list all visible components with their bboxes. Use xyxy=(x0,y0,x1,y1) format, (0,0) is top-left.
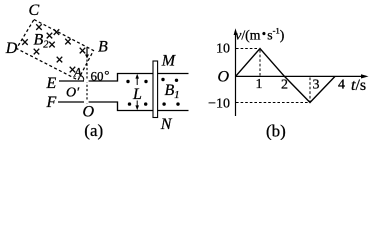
vertical dashed guide line through O xyxy=(86,60,88,105)
svg-text:2: 2 xyxy=(281,78,288,93)
svg-text:N: N xyxy=(160,116,173,133)
svg-text:E: E xyxy=(46,75,57,92)
svg-text:(b): (b) xyxy=(266,121,286,140)
svg-text:(a): (a) xyxy=(84,121,103,140)
svg-text:F: F xyxy=(46,94,57,111)
dashed guide v=-10 xyxy=(236,102,309,104)
svg-text:4: 4 xyxy=(338,78,345,93)
svg-text:O′: O′ xyxy=(66,86,80,101)
L dimension arrows xyxy=(136,77,138,85)
angle arc at A xyxy=(81,75,84,81)
svg-text:t/s: t/s xyxy=(351,77,366,94)
v axis xyxy=(235,31,237,116)
svg-text:A: A xyxy=(73,66,82,80)
svg-text:−10: −10 xyxy=(208,97,230,112)
rail F (bottom) xyxy=(58,102,189,111)
svg-text:×: × xyxy=(78,44,86,60)
svg-text:L: L xyxy=(132,86,142,103)
svg-text:×: × xyxy=(55,53,63,69)
svg-text:×: × xyxy=(48,38,56,54)
svg-text:10: 10 xyxy=(216,42,230,57)
dashed guide t=1 xyxy=(259,50,261,76)
svg-text:C: C xyxy=(29,2,40,19)
velocity arrow (downward) xyxy=(86,48,88,56)
waveform xyxy=(236,49,336,103)
svg-text:×: × xyxy=(64,35,72,51)
dashed guide v=10 xyxy=(236,48,259,50)
dashed guide t=3 xyxy=(309,78,311,102)
svg-text:1: 1 xyxy=(256,77,263,92)
t axis xyxy=(236,75,367,77)
rail E (top) xyxy=(59,74,189,82)
svg-text:M: M xyxy=(161,53,177,70)
field region B2 dashed parallelogram CDAB xyxy=(17,20,94,81)
field B1 dots xyxy=(126,78,179,106)
gaps in rails at guide line crossing xyxy=(84,80,89,83)
rod MN xyxy=(153,61,158,118)
x field symbols inside B2 region xyxy=(21,20,87,79)
svg-text:O: O xyxy=(218,69,230,86)
svg-text:O: O xyxy=(83,103,95,120)
svg-text:D: D xyxy=(5,40,18,57)
svg-text:3: 3 xyxy=(313,78,320,93)
svg-text:×: × xyxy=(21,35,29,51)
svg-text:B: B xyxy=(98,38,108,55)
